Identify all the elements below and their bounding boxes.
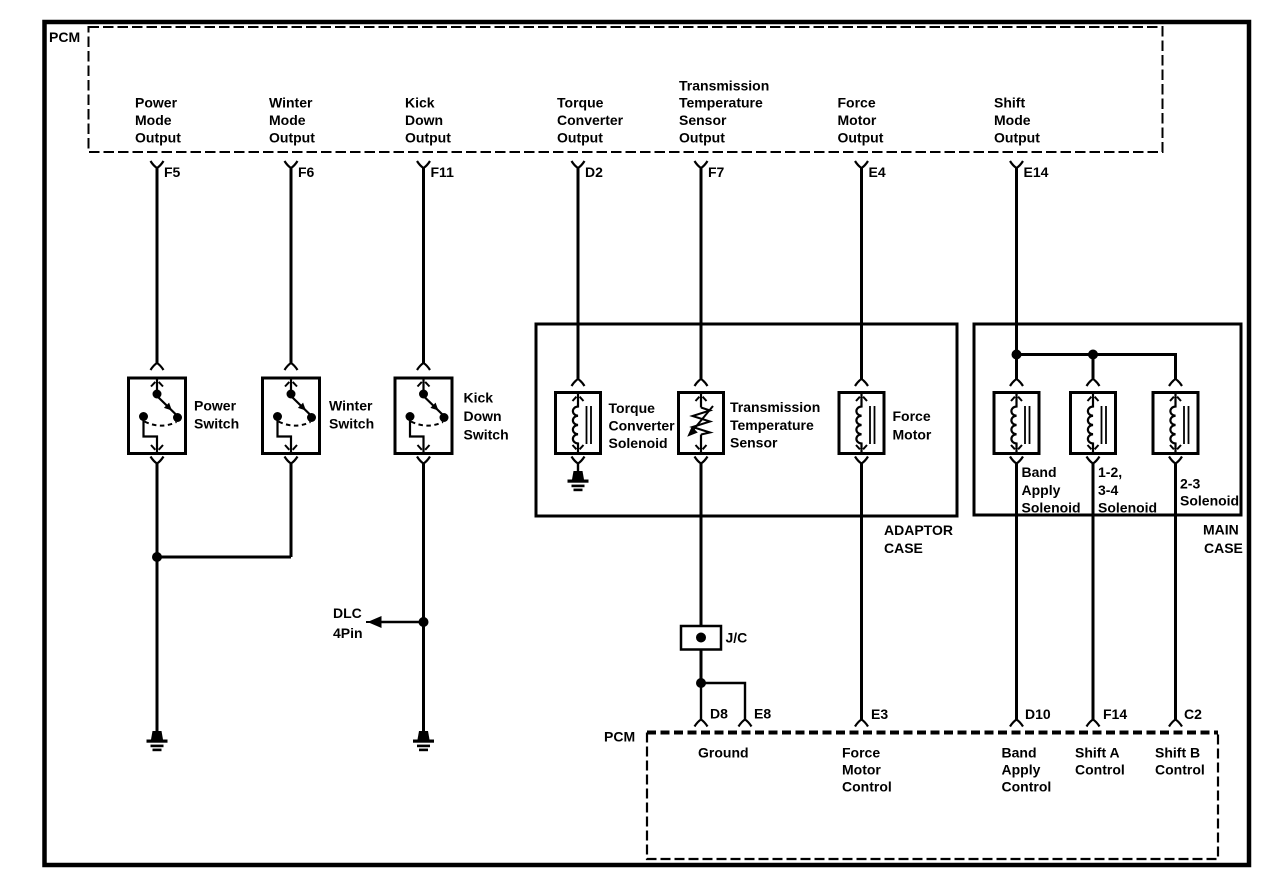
connector above Power Switch	[151, 363, 164, 370]
pin F14 connector	[1087, 706, 1128, 727]
svg-text:PCM: PCM	[49, 29, 80, 45]
svg-text:Transmission: Transmission	[679, 78, 769, 94]
switch S1 Power Switch	[129, 378, 240, 454]
connector below Force Motor	[855, 457, 868, 464]
svg-text:D8: D8	[710, 706, 728, 722]
wire to pin D8	[700, 683, 702, 720]
svg-text:Mode: Mode	[135, 112, 172, 128]
pin F5 connector	[151, 161, 181, 180]
svg-text:F6: F6	[298, 164, 315, 180]
svg-text:F11: F11	[431, 164, 455, 180]
svg-text:Ground: Ground	[698, 745, 749, 761]
connector below Power Switch	[151, 457, 164, 464]
svg-text:DLC: DLC	[333, 605, 362, 621]
label Shift A Control	[1075, 745, 1125, 778]
wire F11 to Kick Down Switch	[422, 168, 425, 363]
svg-text:Control: Control	[1155, 762, 1205, 778]
pin D2 connector	[572, 161, 604, 180]
svg-text:Mode: Mode	[269, 112, 306, 128]
wire bus to Band Apply Solenoid	[1015, 355, 1018, 380]
label Kick Down Output	[405, 95, 451, 146]
connector above Force Motor	[855, 379, 868, 386]
label Power Mode Output	[135, 95, 181, 146]
svg-text:Force: Force	[893, 408, 931, 424]
svg-text:Switch: Switch	[464, 427, 509, 443]
svg-text:Transmission: Transmission	[730, 399, 820, 415]
wire Kick Down Switch to ground	[422, 464, 425, 733]
svg-text:Motor: Motor	[842, 762, 881, 778]
sensor Transmission Temperature Sensor	[679, 393, 821, 454]
PCM bottom dashed box	[647, 733, 1218, 860]
wire tie Winter to Power	[156, 556, 292, 559]
switch S2 Winter Switch	[263, 378, 375, 454]
svg-text:Shift A: Shift A	[1075, 745, 1120, 761]
solenoid 1-2 3-4 Solenoid	[1071, 393, 1158, 516]
ground G3 (torque converter solenoid)	[568, 471, 589, 491]
svg-text:Output: Output	[557, 130, 603, 146]
svg-text:Temperature: Temperature	[679, 95, 763, 111]
label DLC 4Pin	[333, 605, 363, 641]
svg-text:D10: D10	[1025, 706, 1051, 722]
wire 1-2 3-4 Solenoid to pin F14	[1092, 464, 1095, 720]
wire Winter Switch down	[290, 464, 293, 558]
MAIN CASE box	[974, 324, 1241, 515]
wire E14 to main-case bus	[1015, 168, 1018, 355]
pin E4 connector	[855, 161, 886, 180]
svg-text:Control: Control	[1075, 762, 1125, 778]
svg-text:Kick: Kick	[405, 95, 435, 111]
svg-text:Down: Down	[405, 112, 443, 128]
connector above Winter Switch	[285, 363, 298, 370]
svg-text:ADAPTOR: ADAPTOR	[884, 522, 953, 538]
svg-text:E14: E14	[1024, 164, 1049, 180]
svg-text:J/C: J/C	[726, 630, 748, 646]
svg-text:Band: Band	[1002, 745, 1037, 761]
svg-text:Output: Output	[269, 130, 315, 146]
connector below Band Apply Solenoid	[1010, 457, 1023, 464]
junction node DLC tap	[419, 617, 429, 627]
svg-text:Output: Output	[135, 130, 181, 146]
svg-text:CASE: CASE	[1204, 540, 1243, 556]
solenoid Force Motor	[839, 393, 932, 454]
svg-text:D2: D2	[585, 164, 603, 180]
arrow to DLC	[366, 616, 382, 628]
label MAIN CASE	[1203, 522, 1243, 557]
pin F7 connector	[695, 161, 725, 180]
wire Power Switch to ground	[156, 464, 159, 733]
connector below Winter Switch	[285, 457, 298, 464]
connector below Torque Converter Solenoid	[572, 457, 585, 464]
wire DLC arrow shaft	[379, 621, 424, 623]
svg-text:Torque: Torque	[557, 95, 604, 111]
svg-text:Converter: Converter	[609, 418, 676, 434]
svg-text:Solenoid: Solenoid	[609, 435, 668, 451]
label Shift B Control	[1155, 745, 1205, 778]
svg-text:4Pin: 4Pin	[333, 625, 363, 641]
svg-text:E4: E4	[869, 164, 886, 180]
solenoid Torque Converter Solenoid	[556, 393, 676, 454]
label Winter Mode Output	[269, 95, 315, 146]
pin E3 connector	[855, 706, 888, 727]
svg-text:Solenoid: Solenoid	[1022, 500, 1081, 516]
junction node Power/Winter	[152, 552, 162, 562]
wire solenoid feed bus	[1017, 353, 1176, 356]
svg-text:C2: C2	[1184, 706, 1202, 722]
connector above Transmission Temperature Sensor	[695, 379, 708, 386]
wire solenoid to ground	[577, 464, 579, 473]
wire bus to 1-2 3-4 Solenoid	[1092, 355, 1095, 380]
svg-text:Control: Control	[842, 779, 892, 795]
svg-text:Shift: Shift	[994, 95, 1025, 111]
label Transmission Temperature Sensor Output	[679, 78, 769, 146]
svg-text:E3: E3	[871, 706, 888, 722]
label ADAPTOR CASE	[884, 522, 953, 556]
connector above Torque Converter Solenoid	[572, 379, 585, 386]
svg-text:Power: Power	[135, 95, 178, 111]
svg-text:Switch: Switch	[194, 416, 239, 432]
svg-text:2-3: 2-3	[1180, 476, 1200, 492]
pin F6 connector	[285, 161, 315, 180]
svg-text:Solenoid: Solenoid	[1180, 493, 1239, 509]
svg-text:PCM: PCM	[604, 729, 635, 745]
solenoid 2-3 Solenoid	[1153, 393, 1239, 509]
wire F5 to Power Switch	[156, 168, 159, 363]
svg-text:Control: Control	[1002, 779, 1052, 795]
wire 2-3 Solenoid to pin C2	[1174, 464, 1177, 720]
svg-text:Winter: Winter	[269, 95, 313, 111]
svg-text:E8: E8	[754, 706, 771, 722]
wire J/C to split node	[700, 650, 703, 684]
svg-text:1-2,: 1-2,	[1098, 464, 1122, 480]
svg-text:Output: Output	[838, 130, 884, 146]
svg-text:Kick: Kick	[464, 390, 494, 406]
svg-text:Band: Band	[1022, 464, 1057, 480]
ground G1 (power switch)	[147, 731, 168, 751]
wire bus to 2-3 Solenoid	[1174, 353, 1177, 379]
svg-text:Force: Force	[838, 95, 876, 111]
junction node bus/shift-A	[1088, 350, 1098, 360]
solenoid Band Apply Solenoid	[994, 393, 1081, 516]
pin D8 connector	[695, 706, 729, 727]
connector below Kick Down Switch	[417, 457, 430, 464]
svg-text:F14: F14	[1103, 706, 1127, 722]
svg-text:Switch: Switch	[329, 416, 374, 432]
label Force Motor Control	[842, 745, 892, 795]
label Torque Converter Output	[557, 95, 624, 146]
svg-text:F5: F5	[164, 164, 181, 180]
svg-text:Torque: Torque	[609, 400, 656, 416]
connector above Kick Down Switch	[417, 363, 430, 370]
svg-text:CASE: CASE	[884, 540, 923, 556]
PCM top dashed box	[89, 27, 1163, 152]
svg-text:Output: Output	[405, 130, 451, 146]
pin C2 connector	[1169, 706, 1202, 727]
svg-text:Sensor: Sensor	[730, 435, 778, 451]
svg-text:Apply: Apply	[1002, 762, 1041, 778]
svg-text:Output: Output	[994, 130, 1040, 146]
wire to pin E8	[701, 683, 745, 720]
svg-text:Sensor: Sensor	[679, 112, 727, 128]
ground G2 (kick down switch)	[413, 731, 434, 751]
svg-text:Force: Force	[842, 745, 880, 761]
connector above Band Apply Solenoid	[1010, 379, 1023, 386]
pin E8 connector	[739, 706, 772, 727]
svg-text:Motor: Motor	[893, 427, 932, 443]
junction node bus/band	[1012, 350, 1022, 360]
svg-text:Mode: Mode	[994, 112, 1031, 128]
ADAPTOR CASE box	[536, 324, 957, 516]
junction connector J/C	[681, 626, 747, 650]
pin D10 connector	[1010, 706, 1051, 727]
pin F11 connector	[417, 161, 454, 180]
svg-text:Temperature: Temperature	[730, 417, 814, 433]
wire D2 to Torque Converter Solenoid	[577, 168, 580, 379]
svg-text:F7: F7	[708, 164, 725, 180]
svg-text:Apply: Apply	[1022, 482, 1061, 498]
label Shift Mode Output	[994, 95, 1040, 146]
connector above 2-3 Solenoid	[1169, 379, 1182, 386]
wire sensor to J/C	[700, 464, 703, 627]
connector below Transmission Temperature Sensor	[695, 457, 708, 464]
svg-text:Motor: Motor	[838, 112, 877, 128]
connector below 1-2 3-4 Solenoid	[1087, 457, 1100, 464]
switch S3 Kick Down Switch	[395, 378, 509, 454]
svg-text:3-4: 3-4	[1098, 482, 1118, 498]
label Force Motor Output	[838, 95, 884, 146]
wire E4 to Force Motor	[860, 168, 863, 379]
connector below 2-3 Solenoid	[1169, 457, 1182, 464]
connector above 1-2 3-4 Solenoid	[1087, 379, 1100, 386]
svg-text:Winter: Winter	[329, 398, 373, 414]
svg-text:MAIN: MAIN	[1203, 522, 1239, 538]
label Band Apply Control	[1002, 745, 1052, 795]
wire Band Apply Solenoid to pin D10	[1015, 464, 1018, 720]
svg-text:Power: Power	[194, 398, 237, 414]
pin E14 connector	[1010, 161, 1049, 180]
junction node D8/E8 split	[696, 678, 706, 688]
svg-text:Output: Output	[679, 130, 725, 146]
svg-text:Shift B: Shift B	[1155, 745, 1200, 761]
svg-text:Down: Down	[464, 408, 502, 424]
wire F7 to Transmission Temperature Sensor	[700, 168, 703, 379]
svg-text:Converter: Converter	[557, 112, 624, 128]
svg-text:Solenoid: Solenoid	[1098, 500, 1157, 516]
wire F6 to Winter Switch	[290, 168, 293, 363]
wire Force Motor to pin E3	[860, 464, 863, 720]
